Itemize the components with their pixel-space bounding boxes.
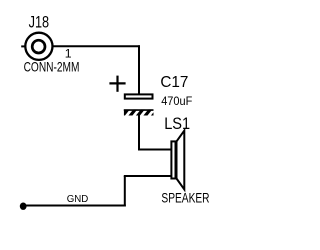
wire J18 to corner — [53, 45, 140, 47]
svg-text:LS1: LS1 — [164, 115, 190, 133]
wire GND horizontal — [23, 205, 126, 207]
connector J18 left tick — [21, 45, 24, 47]
svg-text:J18: J18 — [29, 14, 49, 32]
wire C17 to corner — [138, 115, 140, 150]
svg-text:SPEAKER: SPEAKER — [161, 190, 209, 206]
wire corner to speaker top pin — [138, 149, 171, 151]
speaker LS1 cone — [177, 131, 185, 190]
plus sign (polarity) — [109, 76, 125, 92]
connector J18 outer circle — [25, 33, 52, 60]
wire speaker bottom pin — [124, 175, 171, 177]
svg-text:CONN-2MM: CONN-2MM — [24, 59, 80, 75]
svg-text:470uF: 470uF — [161, 94, 192, 108]
wire corner down to C17 — [138, 45, 140, 94]
svg-text:GND: GND — [67, 194, 89, 205]
speaker LS1 body — [171, 141, 175, 178]
svg-text:C17: C17 — [160, 74, 188, 91]
svg-text:1: 1 — [65, 46, 72, 60]
capacitor C17 bottom plate (hatched) — [124, 108, 155, 118]
capacitor C17 top plate — [125, 94, 153, 98]
connector J18 inner circle — [32, 40, 45, 53]
node GND junction dot — [20, 203, 27, 210]
wire riser — [124, 176, 126, 207]
